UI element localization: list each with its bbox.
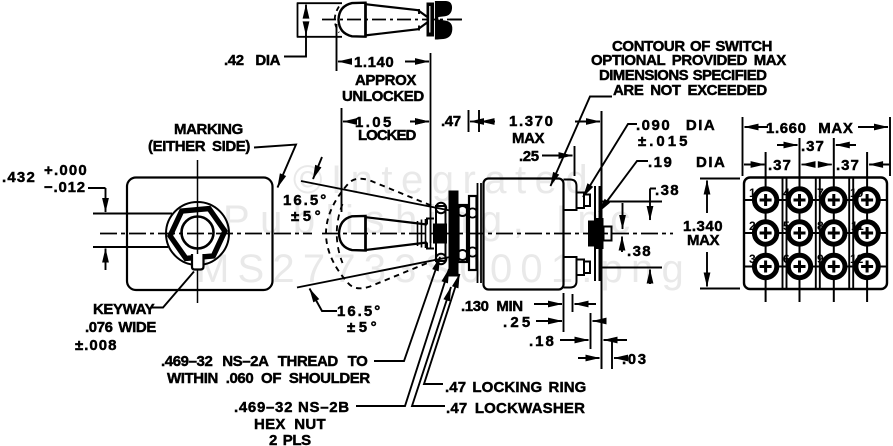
lever taper bottom line	[366, 23, 428, 36]
ext C	[590, 313, 592, 349]
hex nut	[170, 209, 225, 259]
leader NS-2A thread	[374, 257, 440, 361]
ext line right x=430.5	[430, 53, 432, 243]
svg-text:4: 4	[783, 186, 790, 200]
column line 4	[866, 152, 868, 302]
arrows .47	[420, 121, 429, 123]
panel edge line 1	[477, 183, 479, 283]
contour leader	[551, 97, 613, 187]
.130 arrows	[534, 303, 562, 305]
leader NS-2B hex nut	[356, 269, 449, 406]
.38 upper arrows	[649, 196, 651, 220]
svg-text:LOCKED: LOCKED	[358, 127, 417, 144]
svg-text:.38: .38	[655, 182, 680, 199]
centerline stub right of wing	[450, 19, 462, 21]
stack lobe top P1	[436, 203, 446, 213]
ext tick right	[468, 110, 470, 132]
column line 3	[833, 138, 835, 302]
svg-text:1.140: 1.140	[354, 54, 394, 71]
bushing neck (side view)	[427, 219, 434, 249]
svg-text:APPROX: APPROX	[355, 72, 416, 89]
locking collar (filled)	[427, 3, 435, 37]
terminal 10	[856, 189, 878, 211]
svg-text:±.015: ±.015	[638, 133, 690, 150]
svg-text:16.5°: 16.5°	[337, 303, 382, 320]
svg-text:.47 LOCKWASHER: .47 LOCKWASHER	[446, 400, 585, 417]
svg-text:8: 8	[817, 219, 824, 233]
.03 arrows	[578, 357, 600, 359]
arrow up to lower ext	[105, 249, 107, 271]
lever bat cap (side view, locked position)	[339, 216, 366, 251]
bottom flange screw	[577, 260, 585, 276]
terminal 4	[788, 189, 810, 211]
wing piece spine	[435, 1, 438, 40]
dim arrows vertical	[305, 5, 307, 17]
dim arrows 1.140	[338, 61, 352, 63]
ext line right tall x=601.5	[601, 111, 603, 369]
ext line upper	[93, 213, 172, 215]
terminal 5	[788, 222, 810, 244]
svg-text:.37: .37	[801, 138, 825, 155]
leader .19 DIA	[599, 161, 648, 212]
svg-text:16.5°: 16.5°	[283, 192, 328, 209]
svg-text:5: 5	[783, 219, 790, 233]
terminal 7	[823, 189, 845, 211]
barrier pair 3	[848, 178, 850, 290]
svg-text:2 PLS: 2 PLS	[269, 432, 311, 446]
terminal board edge-on	[594, 186, 596, 281]
svg-text:9: 9	[817, 252, 824, 266]
svg-text:.469–32 NS–2A THREAD TO: .469–32 NS–2A THREAD TO	[161, 353, 368, 370]
ext tick left	[478, 110, 480, 132]
svg-text:.130 MIN: .130 MIN	[461, 298, 523, 315]
svg-text:1: 1	[749, 186, 756, 200]
ext line left	[341, 108, 343, 212]
.38 lower arrows	[649, 270, 651, 285]
svg-text:12: 12	[850, 252, 864, 266]
stack plate: hex nut side	[459, 205, 468, 262]
marking leader	[254, 145, 296, 188]
svg-text:.47: .47	[441, 113, 461, 130]
centerline horizontal front view	[100, 233, 312, 235]
svg-text:.38: .38	[627, 243, 652, 260]
bottom flange	[564, 257, 577, 288]
stack plate: lockwasher (dark)	[449, 191, 459, 277]
stack plate: retaining washer	[436, 206, 446, 261]
svg-text:KEYWAY: KEYWAY	[93, 301, 155, 318]
svg-text:UNLOCKED: UNLOCKED	[342, 88, 424, 105]
svg-text:7: 7	[817, 186, 824, 200]
terminal 6	[788, 255, 810, 277]
keyway leader	[152, 272, 194, 308]
terminal 8	[823, 222, 845, 244]
svg-text:+.000: +.000	[44, 162, 88, 179]
leader lockwasher	[412, 287, 451, 406]
barrier pair 2	[815, 178, 817, 290]
svg-text:.090 DIA: .090 DIA	[636, 117, 716, 134]
lever bat cap (top view)	[339, 3, 366, 37]
keyway tab	[192, 254, 204, 270]
svg-text:.03: .03	[622, 351, 648, 368]
ext line top	[297, 2, 342, 4]
leader elbow from tolerance text	[88, 187, 106, 189]
leader .090 DIA	[583, 124, 637, 197]
svg-text:.19 DIA: .19 DIA	[648, 154, 726, 171]
dim arrows 1.370	[481, 121, 496, 123]
watermark line 3	[196, 247, 692, 291]
centerline vertical front view	[197, 160, 199, 303]
barrier pair 1	[782, 178, 784, 290]
svg-text:ARE NOT EXCEEDED: ARE NOT EXCEEDED	[613, 82, 767, 99]
ext B flange edge	[572, 294, 574, 312]
stack lobe bottom P4	[468, 247, 477, 256]
ext A body edge	[563, 293, 565, 332]
ext E	[611, 338, 613, 369]
wing piece lower lobe	[437, 19, 453, 39]
terminal 12	[856, 255, 878, 277]
svg-text:MAX: MAX	[687, 232, 720, 249]
neck tick	[418, 9, 420, 14]
svg-text:MARKING: MARKING	[174, 121, 243, 138]
dim .37 middle	[777, 144, 798, 146]
svg-text:MAX: MAX	[512, 130, 545, 147]
dashed arc left of cap	[335, 7, 339, 33]
svg-text:±5°: ±5°	[291, 208, 324, 225]
svg-text:−.012: −.012	[44, 179, 86, 196]
svg-text:11: 11	[851, 219, 864, 233]
centerline top view	[322, 19, 462, 21]
terminal 2	[754, 222, 776, 244]
row line 3	[744, 266, 887, 268]
svg-text:.47 LOCKING RING: .47 LOCKING RING	[445, 379, 586, 396]
svg-text:.18: .18	[529, 333, 556, 350]
switch body	[484, 179, 564, 290]
terminal 11	[856, 222, 878, 244]
lever taper (side view) top	[366, 217, 428, 224]
column line 1	[765, 152, 767, 302]
stack plate: locking ring	[469, 196, 477, 270]
rear body outline	[744, 178, 887, 290]
dim arrows 1.05	[343, 121, 356, 123]
.25 arrows	[536, 320, 562, 322]
panel plate	[127, 178, 273, 291]
svg-text:10: 10	[850, 186, 864, 200]
leader to .42 DIA text	[284, 35, 306, 57]
svg-text:.25: .25	[503, 314, 533, 331]
ext line left (lever tip)	[336, 24, 338, 71]
1.340 arrows	[706, 181, 708, 214]
svg-text:±.008: ±.008	[75, 337, 117, 354]
terminal 1	[754, 189, 776, 211]
svg-text:WITHIN .060 OF SHOULDER: WITHIN .060 OF SHOULDER	[167, 370, 370, 387]
terminal numbers	[749, 186, 864, 266]
svg-text:HEX NUT: HEX NUT	[254, 416, 326, 433]
ext line lower	[93, 246, 168, 248]
dim .37 left	[744, 164, 765, 166]
stack lobe top P3	[458, 206, 468, 216]
svg-text:3: 3	[749, 252, 756, 266]
svg-text:(EITHER SIDE): (EITHER SIDE)	[148, 138, 250, 155]
thread ticks	[417, 221, 419, 246]
angle arrow lower / leader	[310, 289, 338, 312]
watermark line 2	[223, 198, 641, 242]
ext tick for .25 top	[574, 146, 576, 176]
svg-text:1.370: 1.370	[509, 113, 555, 130]
svg-text:.469–32 NS–2B: .469–32 NS–2B	[234, 399, 350, 416]
terminal 3	[754, 255, 776, 277]
lever cap flat line	[364, 3, 367, 37]
arrow down to upper ext	[105, 188, 107, 212]
svg-text:.42 DIA: .42 DIA	[224, 52, 281, 69]
svg-text:.432: .432	[2, 169, 36, 186]
watermark line 1	[293, 158, 596, 202]
panel edge line 2	[480, 183, 482, 283]
ext line bottom	[297, 36, 342, 38]
top flange	[564, 180, 577, 211]
svg-text:.25: .25	[519, 148, 539, 165]
lever taper (side view) bottom	[366, 243, 428, 251]
column line 2	[799, 138, 801, 302]
bushing hole circle	[182, 217, 214, 249]
stack lobe top P4	[468, 208, 477, 217]
row line 1	[744, 199, 887, 201]
locking ring outer circle	[166, 202, 229, 265]
angle line upper	[301, 181, 450, 211]
dim 1.660 MAX	[742, 117, 744, 176]
dashed arc near cap	[337, 204, 343, 263]
top flange screw	[577, 193, 585, 209]
lever taper top line	[366, 4, 428, 17]
dashed swing balloon	[326, 179, 431, 289]
svg-text:1.660 MAX: 1.660 MAX	[766, 120, 853, 137]
stack lobe bottom P1	[436, 254, 446, 264]
angle arrow upper	[313, 157, 322, 179]
svg-text:.076 WIDE: .076 WIDE	[85, 319, 156, 336]
row line 2	[744, 232, 887, 234]
closing bracket vertical	[297, 3, 299, 38]
terminals grid	[754, 189, 878, 278]
row ext line top (side view)	[599, 201, 662, 203]
lever cap flat (side view)	[364, 216, 367, 252]
svg-text:6: 6	[783, 252, 790, 266]
ext tick top	[700, 178, 740, 180]
middle terminal cluster	[588, 221, 595, 247]
svg-text:.37: .37	[768, 157, 792, 174]
terminal 9	[823, 255, 845, 277]
svg-text:±5°: ±5°	[347, 319, 380, 336]
stack lobe bottom P3	[458, 250, 468, 260]
.18 arrows	[560, 339, 589, 341]
angle line lower	[297, 257, 450, 288]
wing piece upper lobe	[437, 1, 453, 17]
svg-text:.37: .37	[836, 157, 860, 174]
nut face dark center	[433, 224, 447, 244]
svg-text:2: 2	[749, 219, 756, 233]
middle terminal screw tip	[604, 227, 612, 241]
leader locking ring	[424, 274, 460, 384]
dim .38 upper: bracket	[650, 189, 656, 197]
centerline horizontal side view	[322, 233, 673, 235]
ext tick bottom	[700, 288, 740, 290]
row ext line bottom (side view)	[599, 267, 662, 269]
